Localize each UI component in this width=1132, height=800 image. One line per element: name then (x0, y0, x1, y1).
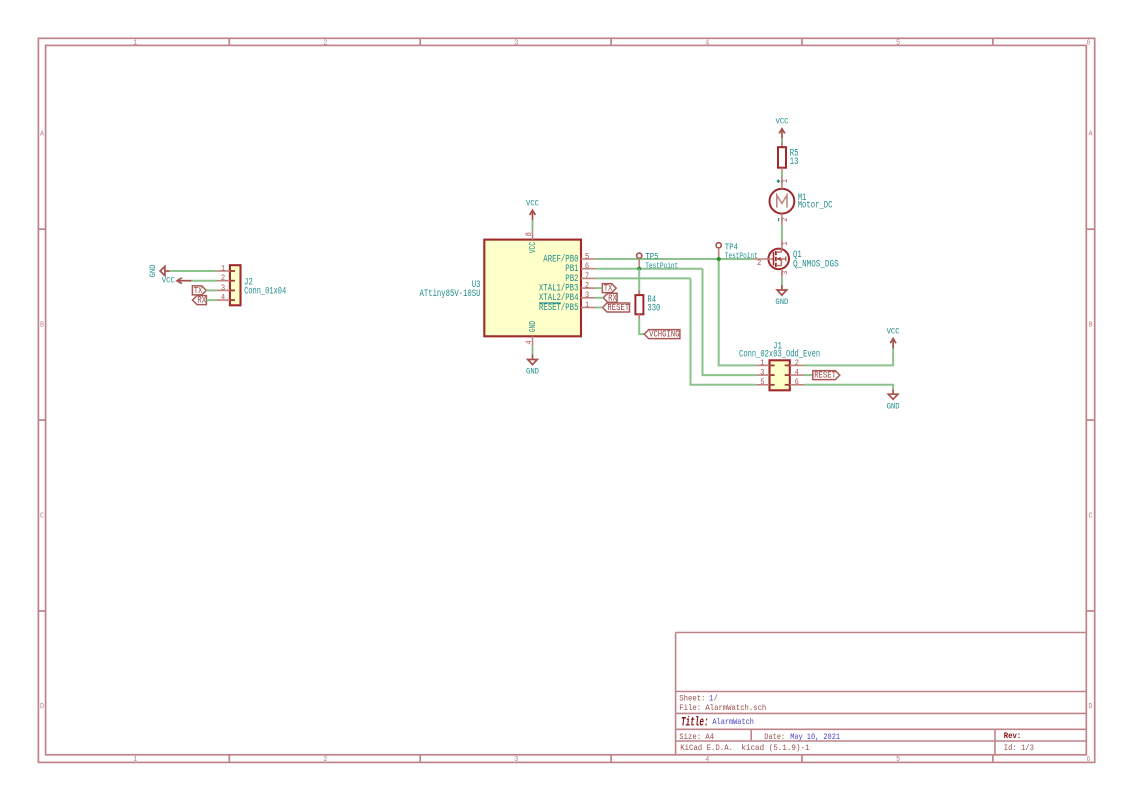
svg-text:B: B (1089, 322, 1094, 330)
title block texts (679, 693, 1034, 752)
wire J1 pin 4 to RESET label (804, 374, 813, 376)
svg-text:Conn_01x04: Conn_01x04 (244, 286, 286, 297)
svg-text:8: 8 (526, 232, 534, 237)
svg-text:B: B (40, 322, 45, 330)
svg-text:Motor_DC: Motor_DC (798, 200, 833, 211)
wire PB1 net (596, 268, 703, 270)
svg-text:Id: 1/3: Id: 1/3 (1004, 743, 1034, 753)
power symbol GND (J1 pin 6) (887, 389, 900, 411)
svg-text:May 10, 2021: May 10, 2021 (790, 732, 840, 742)
wire TX label to J2 pin 3 (206, 289, 216, 291)
svg-text:VCC: VCC (887, 327, 900, 337)
svg-text:1: 1 (760, 360, 765, 368)
wire AREF/PB0 to Q1 gate (596, 258, 754, 260)
U3 pin 6 (PB1) (565, 263, 595, 274)
connector J2 Conn_01x04 (216, 265, 286, 305)
svg-text:Title:: Title: (681, 716, 709, 730)
connector J1 Conn_02x03_Odd_Even (739, 340, 820, 390)
U3 pin 4 (GND bottom) (526, 321, 538, 346)
svg-text:Q_NMOS_DGS: Q_NMOS_DGS (793, 258, 839, 269)
svg-text:Rev:: Rev: (1004, 731, 1021, 741)
svg-text:4: 4 (795, 370, 800, 378)
global label VCHGING (644, 330, 680, 340)
svg-text:ATtiny85V-10SU: ATtiny85V-10SU (420, 288, 481, 299)
wire RX label to J2 pin 4 (206, 299, 216, 301)
svg-text:D: D (40, 703, 44, 711)
svg-text:TestPoint: TestPoint (725, 251, 758, 261)
svg-text:3: 3 (221, 285, 226, 293)
svg-text:2: 2 (323, 40, 327, 48)
power symbol VCC (J2 pin 2) (162, 276, 192, 286)
svg-text:TX: TX (604, 284, 613, 294)
power symbol GND (J2 pin 1) (148, 265, 170, 278)
wire U3 pin 1 to RESET label (596, 307, 603, 309)
U3 pin 7 (PB2) (565, 273, 595, 284)
global label RX (U3) (603, 293, 617, 303)
svg-text:13: 13 (790, 156, 799, 167)
svg-text:Conn_02x03_Odd_Even: Conn_02x03_Odd_Even (739, 348, 820, 359)
svg-text:4: 4 (705, 40, 709, 48)
wire PB1 junction down to R4 (638, 269, 640, 295)
power symbol VCC (R5 top) (776, 117, 789, 139)
svg-text:5: 5 (896, 756, 900, 764)
svg-text:3: 3 (514, 756, 518, 764)
svg-text:D: D (1089, 703, 1093, 711)
svg-text:RX: RX (608, 293, 617, 303)
svg-text:3: 3 (782, 270, 790, 275)
svg-text:RESET/PB5: RESET/PB5 (539, 302, 579, 313)
wire VCC to J2 pin 2 (192, 280, 217, 282)
svg-text:A: A (1089, 131, 1094, 139)
power symbol VCC (U3 top) (526, 198, 539, 220)
svg-text:TX: TX (194, 286, 203, 296)
svg-text:1: 1 (782, 179, 790, 184)
transistor Q1 Q_NMOS_DGS (754, 240, 839, 278)
svg-text:6: 6 (795, 379, 800, 387)
svg-text:File: AlarmWatch.sch: File: AlarmWatch.sch (679, 703, 766, 713)
svg-text:3: 3 (514, 40, 518, 48)
svg-text:GND: GND (775, 297, 788, 307)
svg-text:4: 4 (221, 295, 226, 303)
svg-text:GND: GND (526, 367, 539, 377)
svg-text:2: 2 (757, 260, 762, 268)
svg-text:Size: A4: Size: A4 (679, 732, 714, 742)
MCU U3 ATtiny85V-10SU (420, 240, 582, 337)
svg-text:4: 4 (526, 340, 534, 345)
svg-text:VCC: VCC (776, 117, 789, 127)
svg-text:2: 2 (323, 756, 327, 764)
svg-text:GND: GND (887, 401, 900, 411)
svg-text:3: 3 (585, 292, 590, 300)
test point TP4 (716, 242, 758, 262)
wire PB2 down to J1 pin 5 (691, 278, 757, 384)
wire U3 pin 4 to GND (532, 346, 534, 355)
svg-text:2: 2 (782, 217, 790, 222)
svg-text:VCHGING: VCHGING (649, 330, 679, 340)
svg-text:C: C (40, 513, 45, 521)
wire VCC to R5 (781, 139, 783, 148)
svg-text:1: 1 (221, 265, 226, 273)
svg-text:TestPoint: TestPoint (645, 261, 678, 271)
svg-text:KiCad E.D.A.: KiCad E.D.A. (680, 743, 733, 753)
svg-text:1: 1 (133, 40, 137, 48)
svg-text:5: 5 (896, 40, 900, 48)
svg-text:5: 5 (585, 253, 590, 261)
wire U3 pin 2 to TX label (596, 287, 603, 289)
global label RX (J2) (193, 296, 207, 306)
junction PB1/TP5/R4 (637, 267, 641, 271)
svg-text:RX: RX (197, 296, 206, 306)
svg-text:6: 6 (1086, 40, 1090, 48)
junction AREF/TP4 (717, 257, 721, 261)
svg-text:1: 1 (133, 756, 137, 764)
wire R4 to VCHGING label (639, 319, 644, 334)
U3 pin 3 (XTAL2/PB4) (539, 292, 596, 303)
U3 pin 2 (XTAL1/PB3) (539, 283, 596, 294)
test point TP5 (637, 251, 679, 271)
U3 pin 8 (VCC top) (526, 230, 538, 254)
svg-text:6: 6 (585, 263, 590, 271)
svg-text:RESET: RESET (814, 371, 836, 381)
svg-text:GND: GND (148, 265, 158, 278)
svg-text:1: 1 (585, 302, 590, 310)
global label RESET (J1) (813, 371, 840, 381)
svg-text:6: 6 (1086, 756, 1090, 764)
wire GND to J2 pin 1 (170, 270, 217, 272)
svg-text:kicad (5.1.9)-1: kicad (5.1.9)-1 (741, 743, 809, 753)
wire Q1 source to GND (781, 278, 783, 286)
wire M1 to Q1 drain (781, 225, 783, 240)
wire U3 pin 8 to VCC (532, 220, 534, 229)
svg-text:4: 4 (705, 756, 709, 764)
svg-text:2: 2 (585, 283, 590, 291)
global label TX (U3) (602, 284, 616, 294)
svg-text:VCC: VCC (162, 276, 175, 286)
svg-text:7: 7 (585, 273, 590, 281)
svg-text:VCC: VCC (527, 242, 538, 254)
svg-text:2: 2 (221, 275, 226, 283)
svg-text:A: A (40, 131, 45, 139)
svg-text:2: 2 (795, 360, 800, 368)
svg-text:C: C (1089, 513, 1094, 521)
U3 pin 5 (AREF/PB0) (543, 253, 595, 264)
svg-text:5: 5 (760, 379, 765, 387)
svg-text:AlarmWatch: AlarmWatch (712, 717, 754, 727)
wire PB1 down to J1 pin 3 (703, 269, 757, 375)
title block (676, 633, 1087, 755)
wire PB2 net (596, 277, 691, 279)
resistor R5 13 (778, 143, 799, 173)
svg-text:RESET: RESET (607, 303, 629, 313)
wire J1 pin 6 to GND (804, 385, 893, 389)
power symbol GND (U3 bottom) (526, 355, 539, 377)
global label RESET (U3) (603, 303, 630, 313)
resistor R4 330 (635, 290, 660, 319)
svg-text:330: 330 (647, 303, 660, 314)
svg-text:1: 1 (782, 241, 790, 246)
power symbol VCC (J1 pin 2) (887, 327, 900, 349)
wire U3 pin 3 to RX label (596, 297, 604, 299)
svg-text:Date:: Date: (764, 732, 785, 742)
power symbol GND (Q1 source) (775, 285, 788, 307)
U3 pin 1 (RESET/PB5) (539, 302, 596, 313)
wire J1 pin 2 to VCC (804, 349, 893, 366)
motor M1 Motor_DC (770, 177, 833, 226)
svg-text:VCC: VCC (526, 198, 539, 208)
svg-text:3: 3 (760, 370, 765, 378)
wire TP4 node down to J1 pin 1 (719, 259, 757, 365)
svg-text:GND: GND (527, 321, 538, 333)
global label TX (J2) (192, 286, 206, 296)
wire R5 to M1 (781, 172, 783, 176)
